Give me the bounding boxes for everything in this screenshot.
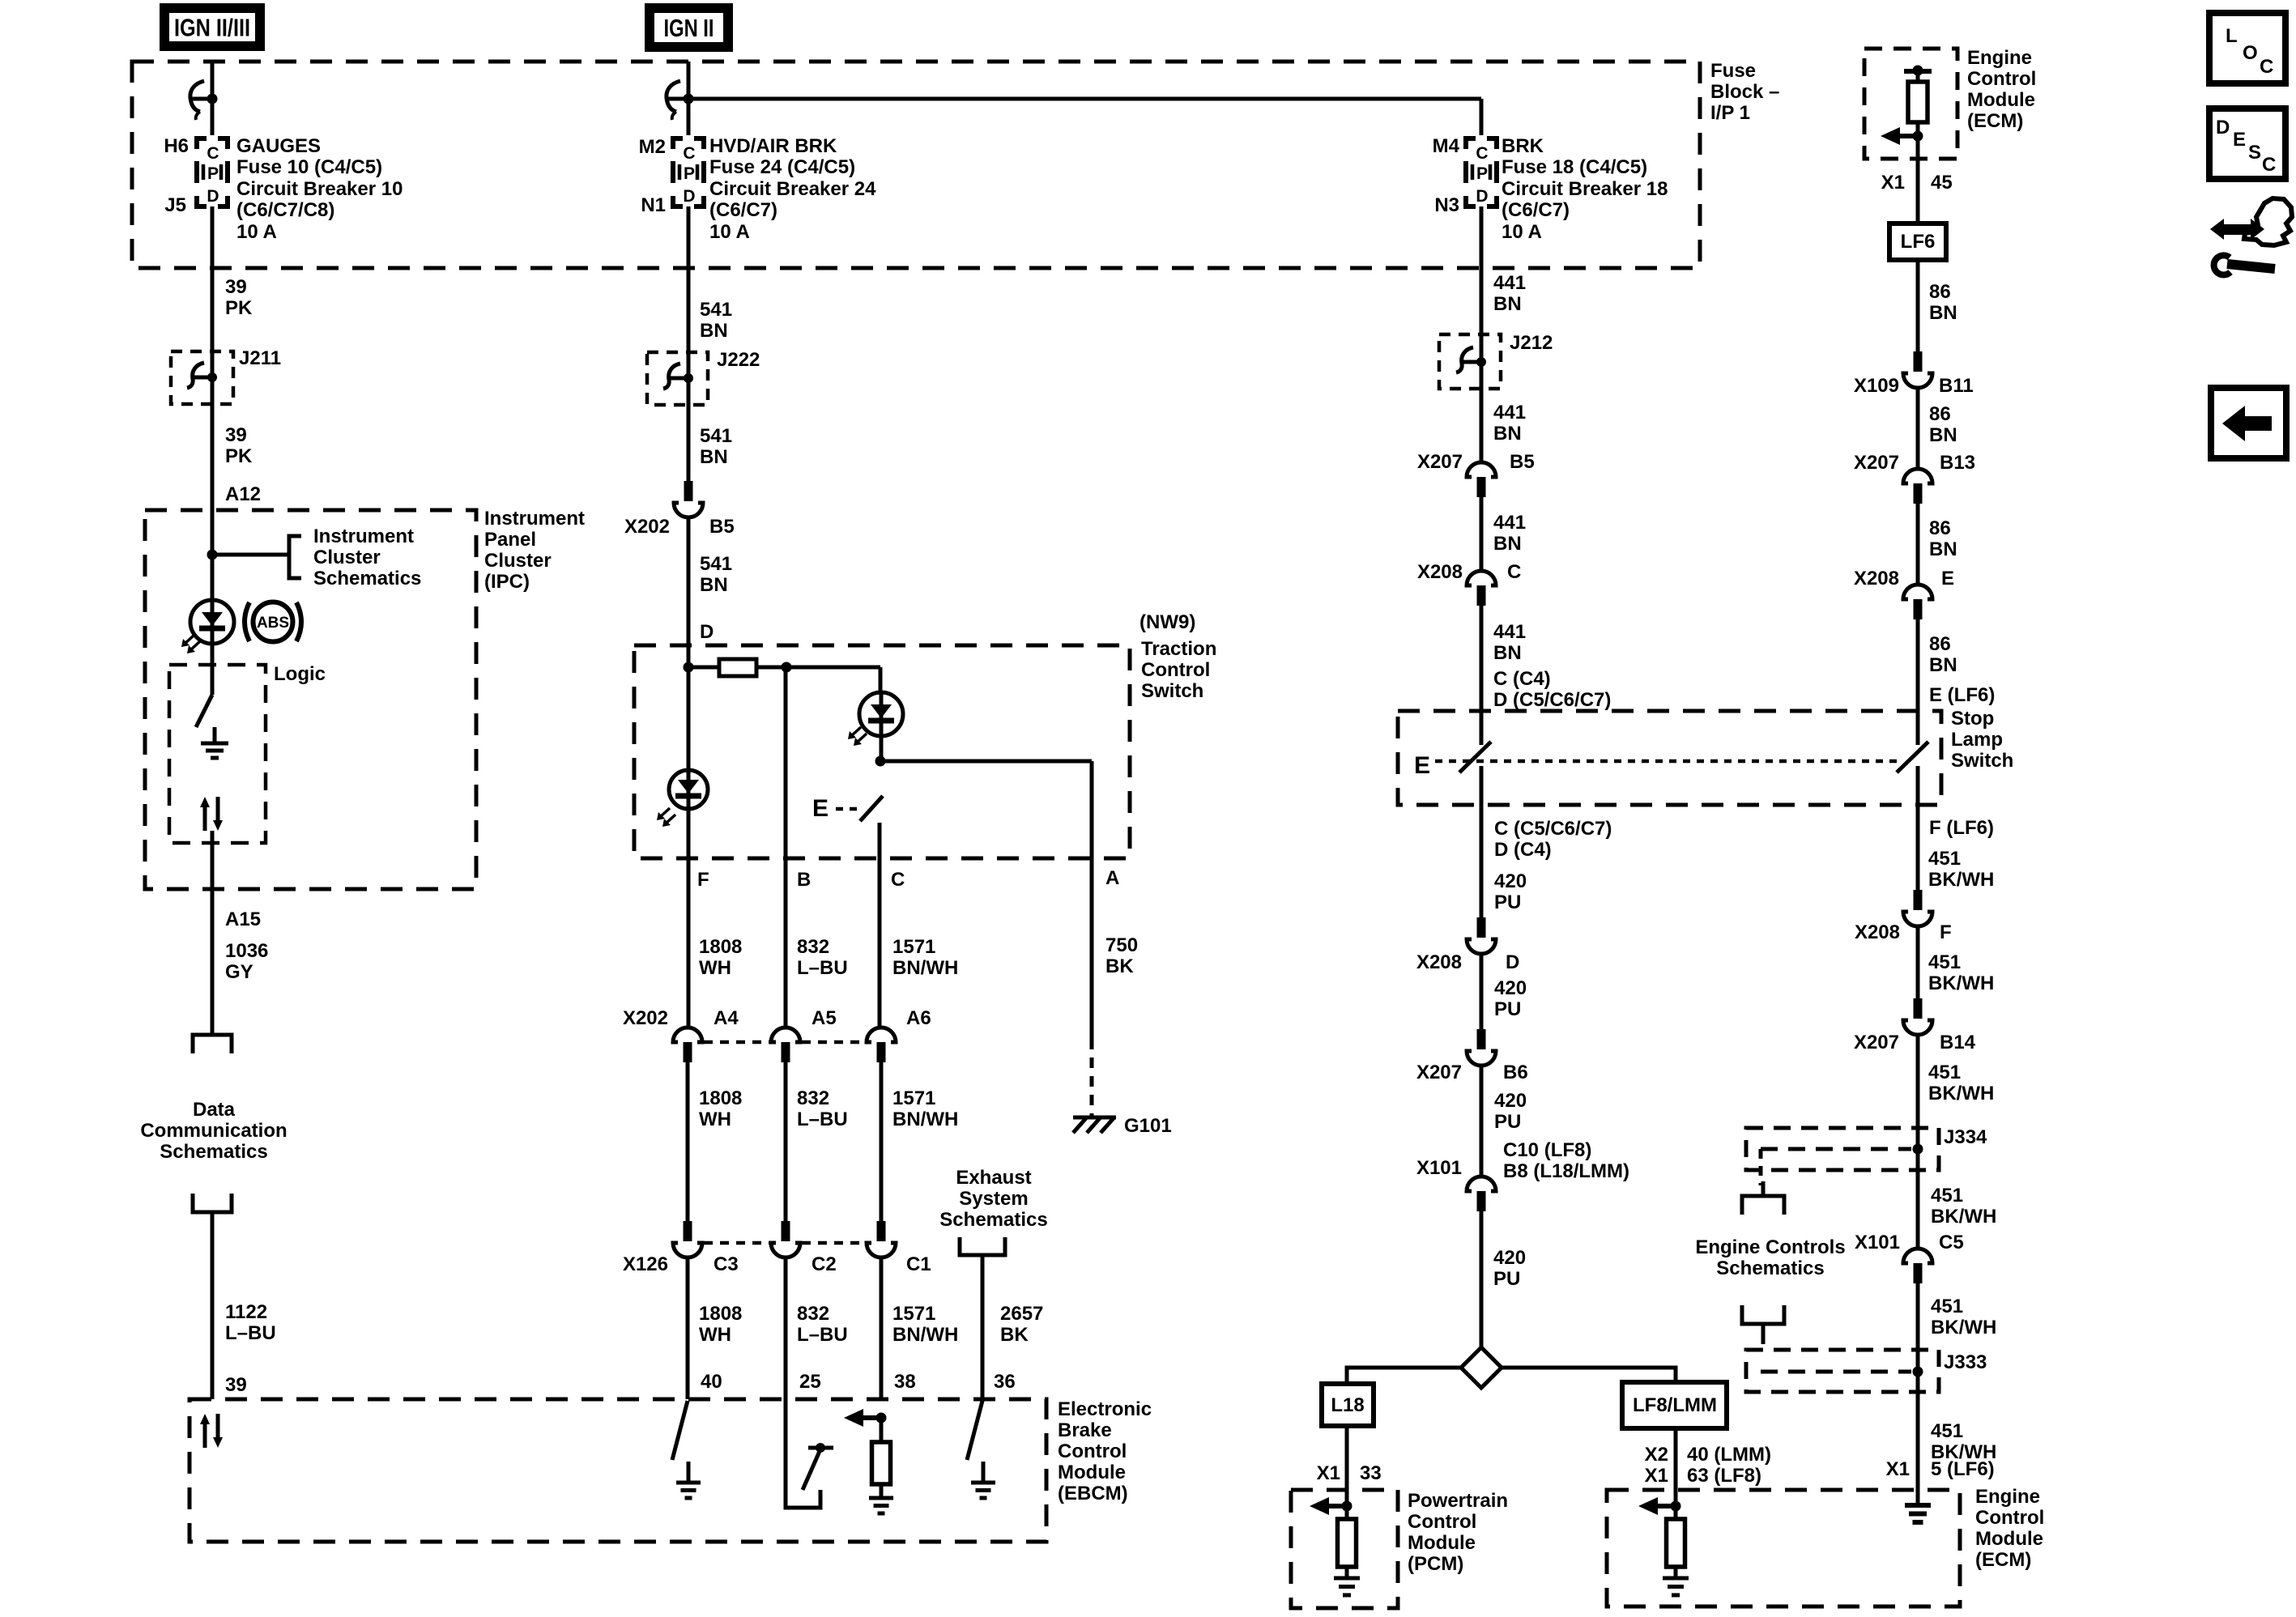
ground G101	[1073, 1116, 1116, 1120]
svg-text:C (C4): C (C4)	[1493, 668, 1551, 690]
connector dashes X126 row	[704, 1241, 769, 1245]
svg-text:D (C5/C6/C7): D (C5/C6/C7)	[1493, 689, 1611, 711]
svg-text:M4: M4	[1433, 135, 1460, 157]
wire col1 to EBCM	[211, 1212, 215, 1399]
splice J212 box	[1439, 334, 1501, 389]
svg-text:A6: A6	[906, 1007, 931, 1029]
svg-text:X101: X101	[1855, 1232, 1900, 1253]
svg-text:38: 38	[894, 1371, 916, 1393]
EBCM switch 25 pivot	[816, 1443, 825, 1453]
wire ECM to LF6	[1916, 122, 1920, 223]
EBCM ground 38	[880, 1484, 884, 1498]
wire col A dashed to ground	[1090, 1039, 1094, 1117]
svg-text:C10 (LF8): C10 (LF8)	[1503, 1139, 1591, 1161]
svg-text:System: System	[959, 1188, 1028, 1210]
wire to cluster-schematics bracket	[212, 553, 288, 557]
LF6 box	[1889, 223, 1946, 260]
svg-text:LF8/LMM: LF8/LMM	[1633, 1394, 1717, 1416]
svg-text:C: C	[2260, 56, 2273, 78]
EBCM node 38	[876, 1413, 887, 1423]
svg-text:Control: Control	[1408, 1511, 1476, 1533]
svg-text:E: E	[1941, 568, 1954, 589]
offpage from data comm	[193, 1194, 232, 1212]
svg-text:X208: X208	[1854, 568, 1899, 589]
svg-text:5 (LF6): 5 (LF6)	[1931, 1458, 1995, 1480]
wire col5 to diamond	[1480, 1211, 1484, 1347]
offpage engine controls bottom	[1742, 1305, 1784, 1324]
svg-text:J222: J222	[717, 349, 760, 371]
svg-text:X207: X207	[1854, 1032, 1899, 1053]
svg-text:D (C4): D (C4)	[1494, 839, 1552, 861]
svg-text:(EBCM): (EBCM)	[1058, 1483, 1128, 1504]
svg-text:750: 750	[1105, 934, 1138, 956]
svg-text:BN: BN	[1929, 654, 1957, 676]
svg-text:C3: C3	[714, 1253, 739, 1275]
wire X208F to X207B14	[1916, 926, 1920, 998]
svg-text:D: D	[2216, 117, 2230, 138]
LF8/LMM box	[1622, 1382, 1727, 1428]
svg-text:WH: WH	[699, 957, 731, 979]
svg-text:Lamp: Lamp	[1951, 729, 2003, 751]
connector X207 B6	[1477, 1029, 1486, 1049]
svg-text:P: P	[207, 164, 219, 183]
ECM top stem	[1916, 71, 1920, 82]
svg-text:D: D	[700, 621, 714, 643]
svg-text:2657: 2657	[1000, 1303, 1043, 1325]
svg-text:1036: 1036	[225, 940, 268, 962]
svg-text:D: D	[683, 187, 695, 206]
svg-text:441: 441	[1493, 621, 1526, 643]
svg-text:X202: X202	[623, 1007, 668, 1029]
svg-text:832: 832	[797, 1087, 829, 1109]
ECM ground col6	[1905, 1503, 1931, 1508]
svg-text:C: C	[891, 869, 905, 891]
svg-text:GY: GY	[225, 961, 253, 983]
TCS indicator lamp F	[669, 770, 708, 809]
svg-text:Engine: Engine	[1967, 47, 2032, 69]
EBCM pin25 wire hook	[786, 1399, 820, 1508]
svg-text:B5: B5	[709, 516, 735, 538]
svg-text:X2: X2	[1645, 1444, 1668, 1466]
fuse HVD/AIR BRK C/P/D symbol	[673, 138, 683, 149]
svg-text:Engine Controls: Engine Controls	[1695, 1236, 1845, 1258]
wire col2 X202 to TCS	[687, 517, 691, 667]
svg-text:L: L	[2226, 25, 2238, 47]
icon wrench	[2214, 255, 2230, 274]
stoplamp linkage dashes	[1435, 760, 1903, 764]
ABS telltale	[253, 602, 293, 642]
node J334	[1913, 1144, 1923, 1155]
svg-text:(C6/C7): (C6/C7)	[709, 199, 777, 221]
lamp F arrows	[660, 808, 670, 817]
ECM top arrow	[1913, 131, 1923, 142]
lamp C arrows	[851, 727, 861, 736]
svg-text:86: 86	[1929, 403, 1951, 425]
ECM resistor LF8	[1667, 1519, 1685, 1567]
offpage to data comm	[193, 1035, 232, 1053]
svg-text:Instrument: Instrument	[484, 508, 585, 530]
svg-text:Cluster: Cluster	[484, 550, 552, 572]
svg-text:1808: 1808	[699, 1087, 742, 1109]
svg-text:PU: PU	[1493, 1268, 1520, 1290]
svg-text:Schematics: Schematics	[160, 1141, 267, 1163]
connector X101 C5	[1903, 1249, 1932, 1263]
svg-text:E: E	[2233, 129, 2246, 151]
svg-text:Traction: Traction	[1141, 638, 1216, 660]
PCM resistor	[1338, 1519, 1357, 1567]
svg-text:C: C	[1507, 561, 1521, 583]
traction control switch dashed box	[634, 645, 1130, 858]
svg-text:X101: X101	[1416, 1157, 1462, 1179]
svg-text:X207: X207	[1854, 452, 1899, 474]
svg-text:Control: Control	[1975, 1507, 2044, 1529]
PCM arrow	[1342, 1501, 1352, 1512]
svg-text:36: 36	[994, 1371, 1016, 1393]
svg-text:C2: C2	[811, 1253, 837, 1275]
icon DESC box	[2209, 109, 2285, 179]
L18 box	[1322, 1384, 1374, 1426]
TCS resistor	[719, 659, 756, 676]
svg-text:L–BU: L–BU	[797, 1324, 848, 1346]
svg-text:BK/WH: BK/WH	[1928, 1083, 1994, 1104]
svg-text:B11: B11	[1939, 375, 1974, 397]
svg-text:25: 25	[799, 1371, 821, 1393]
svg-text:H6: H6	[164, 135, 189, 157]
icon back arrow box	[2211, 388, 2286, 458]
ECM top bar	[1904, 69, 1932, 74]
wire lamp C to node	[880, 736, 884, 761]
svg-text:Exhaust: Exhaust	[956, 1167, 1031, 1189]
svg-text:BK/WH: BK/WH	[1928, 869, 1994, 891]
svg-text:420: 420	[1493, 1247, 1526, 1269]
svg-text:X208: X208	[1416, 951, 1462, 973]
wire L18 down	[1345, 1426, 1349, 1519]
svg-text:Fuse 24 (C4/C5): Fuse 24 (C4/C5)	[709, 156, 855, 178]
EBCM arrow 38	[863, 1415, 881, 1420]
fuse GAUGES C/P/D symbol	[197, 138, 207, 149]
svg-text:39: 39	[225, 276, 247, 298]
connector X126 C3	[684, 1221, 692, 1241]
wire C A6 down	[880, 1062, 884, 1221]
svg-text:X1: X1	[1317, 1462, 1340, 1484]
svg-text:Switch: Switch	[1951, 750, 2013, 772]
svg-text:BRK: BRK	[1502, 135, 1544, 157]
svg-text:BK/WH: BK/WH	[1931, 1317, 1996, 1338]
svg-text:E: E	[812, 795, 829, 822]
svg-text:832: 832	[797, 936, 829, 958]
svg-text:BN/WH: BN/WH	[892, 1324, 958, 1346]
ignition switch IGN II/III	[191, 97, 212, 101]
wire LF8 down	[1674, 1428, 1678, 1519]
svg-text:Block –: Block –	[1710, 81, 1779, 103]
wire resistor to node B	[756, 666, 786, 670]
svg-text:BN: BN	[1929, 424, 1957, 446]
splice J212	[1462, 360, 1481, 364]
connector X101	[1467, 1177, 1496, 1191]
svg-text:Module: Module	[1408, 1532, 1476, 1554]
wire col5 below blade	[1480, 766, 1484, 917]
svg-text:E (LF6): E (LF6)	[1929, 684, 1995, 706]
svg-text:X1: X1	[1645, 1465, 1668, 1487]
svg-text:E: E	[1414, 752, 1430, 779]
svg-text:A4: A4	[714, 1007, 739, 1029]
wire col2 fuse to X202	[687, 206, 691, 481]
svg-text:Module: Module	[1975, 1528, 2043, 1550]
splice J211 box	[171, 351, 233, 404]
svg-text:X1: X1	[1886, 1458, 1910, 1480]
svg-text:X1: X1	[1881, 172, 1905, 194]
svg-text:J211: J211	[239, 347, 281, 369]
PCM ground	[1345, 1567, 1349, 1578]
svg-text:L18: L18	[1331, 1394, 1364, 1416]
svg-text:IGN II/III: IGN II/III	[174, 14, 250, 42]
svg-text:Fuse: Fuse	[1710, 60, 1756, 82]
svg-text:BN: BN	[1493, 423, 1522, 445]
connector X202 A4	[673, 1028, 702, 1042]
svg-text:541: 541	[700, 425, 732, 447]
stoplamp blade col5	[1459, 742, 1491, 772]
svg-text:1808: 1808	[699, 936, 742, 958]
svg-text:Communication: Communication	[140, 1120, 287, 1142]
node A12 junction	[207, 550, 218, 560]
EBCM resistor 38	[872, 1442, 891, 1484]
ignition switch IGN II	[667, 97, 688, 101]
svg-text:Fuse 10 (C4/C5): Fuse 10 (C4/C5)	[236, 156, 382, 178]
svg-text:441: 441	[1493, 272, 1526, 294]
svg-text:LF6: LF6	[1901, 231, 1936, 253]
svg-text:I/P 1: I/P 1	[1710, 102, 1750, 124]
svg-text:F: F	[697, 869, 709, 891]
svg-text:541: 541	[700, 299, 732, 321]
logic switch blade	[196, 695, 212, 727]
svg-text:541: 541	[700, 553, 732, 575]
ECM ground LF8	[1674, 1567, 1678, 1578]
wire col5 X208D to X207B6	[1480, 954, 1484, 1029]
icon hand outline	[2244, 198, 2292, 245]
connector X208 E	[1903, 585, 1932, 599]
TCS switch blade C	[860, 796, 883, 821]
svg-text:B5: B5	[1510, 451, 1535, 473]
svg-text:C: C	[2262, 154, 2276, 176]
wire C2 to EBCM	[784, 1257, 788, 1399]
splice diamond	[1461, 1347, 1502, 1388]
svg-text:X126: X126	[623, 1253, 668, 1275]
svg-text:O: O	[2243, 42, 2258, 64]
connector X207 B5	[1467, 462, 1496, 477]
svg-text:X109: X109	[1854, 375, 1899, 397]
svg-text:Stop: Stop	[1951, 708, 1994, 730]
TCS indicator lamp C	[859, 692, 903, 736]
svg-text:C5: C5	[1939, 1232, 1964, 1253]
wire diamond right arm	[1502, 1368, 1676, 1382]
svg-text:C: C	[683, 144, 695, 163]
wire col1 logic to offpage	[211, 831, 215, 1035]
svg-text:BN: BN	[1929, 538, 1957, 560]
svg-text:63 (LF8): 63 (LF8)	[1687, 1465, 1761, 1487]
connector dashes X202 row	[704, 1040, 769, 1045]
wire X109 to X207	[1916, 388, 1920, 467]
splice J222 box	[647, 352, 708, 405]
EBCM ground 36	[982, 1462, 986, 1483]
svg-text:PU: PU	[1494, 998, 1521, 1020]
svg-text:10 A: 10 A	[236, 221, 277, 243]
svg-text:Electronic: Electronic	[1058, 1398, 1152, 1420]
wire col5 to stoplamp	[1480, 606, 1484, 745]
svg-text:45: 45	[1931, 172, 1953, 194]
svg-text:39: 39	[225, 1374, 247, 1396]
svg-text:Control: Control	[1967, 68, 2036, 90]
svg-text:G101: G101	[1124, 1115, 1172, 1137]
svg-text:C: C	[207, 144, 219, 163]
svg-text:1808: 1808	[699, 1303, 742, 1325]
offpage engine controls top	[1761, 1181, 1766, 1196]
svg-text:L–BU: L–BU	[797, 957, 848, 979]
svg-text:J5: J5	[164, 194, 186, 216]
logic up-down arrows	[203, 806, 207, 831]
svg-text:(NW9): (NW9)	[1139, 611, 1195, 633]
svg-text:1571: 1571	[892, 1303, 935, 1325]
icon LOC box	[2209, 13, 2285, 83]
wire col A down	[1090, 761, 1094, 1039]
svg-text:86: 86	[1929, 517, 1951, 539]
svg-text:Module: Module	[1058, 1462, 1126, 1483]
svg-text:J334: J334	[1944, 1126, 1987, 1148]
svg-text:(PCM): (PCM)	[1408, 1553, 1463, 1575]
svg-text:420: 420	[1494, 870, 1527, 892]
EBCM dashed box	[190, 1399, 1046, 1542]
node J333	[1913, 1367, 1923, 1377]
wire to col A	[880, 760, 1092, 764]
svg-text:BN: BN	[1929, 302, 1957, 324]
wire IGN II feed to BRK fuse	[688, 97, 1481, 101]
TCS linkage dashes	[836, 807, 860, 811]
logic ground	[213, 727, 217, 743]
EBCM ground 40	[687, 1462, 691, 1483]
svg-text:X208: X208	[1417, 561, 1463, 583]
fuse block I/P dashed box	[132, 62, 1700, 268]
svg-text:A15: A15	[225, 908, 261, 930]
svg-text:PK: PK	[225, 445, 253, 467]
connector X126 C2	[782, 1221, 790, 1241]
svg-text:PU: PU	[1494, 891, 1521, 913]
svg-text:B: B	[797, 869, 811, 891]
svg-text:WH: WH	[699, 1108, 731, 1130]
svg-text:IGN II: IGN II	[664, 14, 714, 42]
svg-text:C1: C1	[906, 1253, 931, 1275]
wire col6 below blade	[1916, 766, 1920, 890]
svg-text:10 A: 10 A	[709, 221, 750, 243]
svg-text:Circuit Breaker 10: Circuit Breaker 10	[236, 178, 403, 200]
wire col1 top	[211, 62, 215, 135]
svg-text:86: 86	[1929, 633, 1951, 655]
wire X207 to X208	[1916, 504, 1920, 583]
svg-text:1571: 1571	[892, 1087, 935, 1109]
svg-text:Panel: Panel	[484, 529, 536, 551]
node below lamp C	[875, 756, 886, 767]
svg-text:GAUGES: GAUGES	[236, 135, 321, 157]
logic dashed box	[169, 665, 266, 843]
wire C1 to EBCM	[880, 1257, 884, 1399]
svg-text:Schematics: Schematics	[313, 568, 421, 589]
wire LF6 to X109	[1916, 260, 1920, 351]
svg-text:(C6/C7/C8): (C6/C7/C8)	[236, 199, 334, 221]
svg-text:BK/WH: BK/WH	[1931, 1206, 1996, 1228]
wire diamond left arm	[1347, 1368, 1461, 1384]
connector X207 B13	[1903, 469, 1932, 483]
svg-text:420: 420	[1494, 1090, 1527, 1112]
svg-text:B6: B6	[1503, 1062, 1528, 1083]
wire lamp to switch	[211, 640, 215, 695]
svg-text:1571: 1571	[892, 936, 935, 958]
svg-text:Circuit Breaker 18: Circuit Breaker 18	[1502, 178, 1668, 200]
svg-text:86: 86	[1929, 281, 1951, 303]
svg-text:451: 451	[1928, 848, 1961, 870]
svg-text:HVD/AIR BRK: HVD/AIR BRK	[709, 135, 837, 157]
wire col C below blade	[878, 823, 882, 1026]
wire B A5 down	[784, 1062, 788, 1221]
splice J333 box	[1746, 1350, 1939, 1392]
svg-text:C: C	[1476, 144, 1488, 163]
connector X208 D	[1477, 917, 1486, 938]
svg-text:M2: M2	[639, 136, 666, 158]
svg-text:D: D	[1476, 187, 1488, 206]
EBCM up-down arrows	[203, 1423, 207, 1448]
svg-text:451: 451	[1931, 1296, 1963, 1317]
svg-text:Module: Module	[1967, 89, 2035, 111]
svg-text:451: 451	[1931, 1185, 1963, 1206]
svg-text:PU: PU	[1494, 1111, 1521, 1133]
svg-text:J212: J212	[1510, 332, 1553, 354]
svg-text:Switch: Switch	[1141, 680, 1203, 702]
svg-text:N3: N3	[1434, 194, 1459, 216]
ECM arrow LF8	[1671, 1501, 1681, 1512]
splice J222	[669, 377, 688, 381]
svg-text:Circuit Breaker 24: Circuit Breaker 24	[709, 178, 876, 200]
svg-text:BN/WH: BN/WH	[892, 957, 958, 979]
svg-text:Logic: Logic	[274, 663, 326, 685]
wire F A4 down	[686, 1062, 690, 1221]
svg-text:BN: BN	[1493, 293, 1522, 315]
svg-text:B8 (L18/LMM): B8 (L18/LMM)	[1503, 1160, 1629, 1182]
EBCM switch blade 40	[672, 1401, 688, 1460]
svg-text:S: S	[2248, 142, 2261, 164]
wire X207B14 to J334	[1916, 1035, 1920, 1247]
svg-text:832: 832	[797, 1303, 829, 1325]
svg-text:441: 441	[1493, 402, 1526, 423]
svg-text:B13: B13	[1940, 452, 1975, 474]
svg-text:A5: A5	[811, 1007, 837, 1029]
ECM bottom dashed box	[1607, 1490, 1960, 1606]
svg-text:ABS: ABS	[257, 615, 289, 632]
svg-text:BN: BN	[700, 574, 728, 596]
fuse BRK C/P/D symbol	[1466, 138, 1476, 149]
svg-text:Control: Control	[1058, 1440, 1127, 1462]
svg-text:Instrument: Instrument	[313, 526, 414, 547]
svg-text:P: P	[684, 164, 695, 183]
svg-text:451: 451	[1928, 951, 1961, 973]
wire node B to col C	[786, 666, 880, 670]
svg-text:Engine: Engine	[1975, 1486, 2040, 1508]
svg-text:420: 420	[1494, 977, 1527, 999]
connector X126 C1	[877, 1221, 886, 1241]
svg-text:BN/WH: BN/WH	[892, 1108, 958, 1130]
svg-text:C (C5/C6/C7): C (C5/C6/C7)	[1494, 818, 1612, 840]
wire col2 top	[687, 62, 691, 135]
EBCM wire 38	[880, 1418, 884, 1442]
svg-text:Schematics: Schematics	[939, 1209, 1047, 1231]
svg-text:33: 33	[1360, 1462, 1382, 1484]
lamp arrows	[185, 635, 194, 644]
